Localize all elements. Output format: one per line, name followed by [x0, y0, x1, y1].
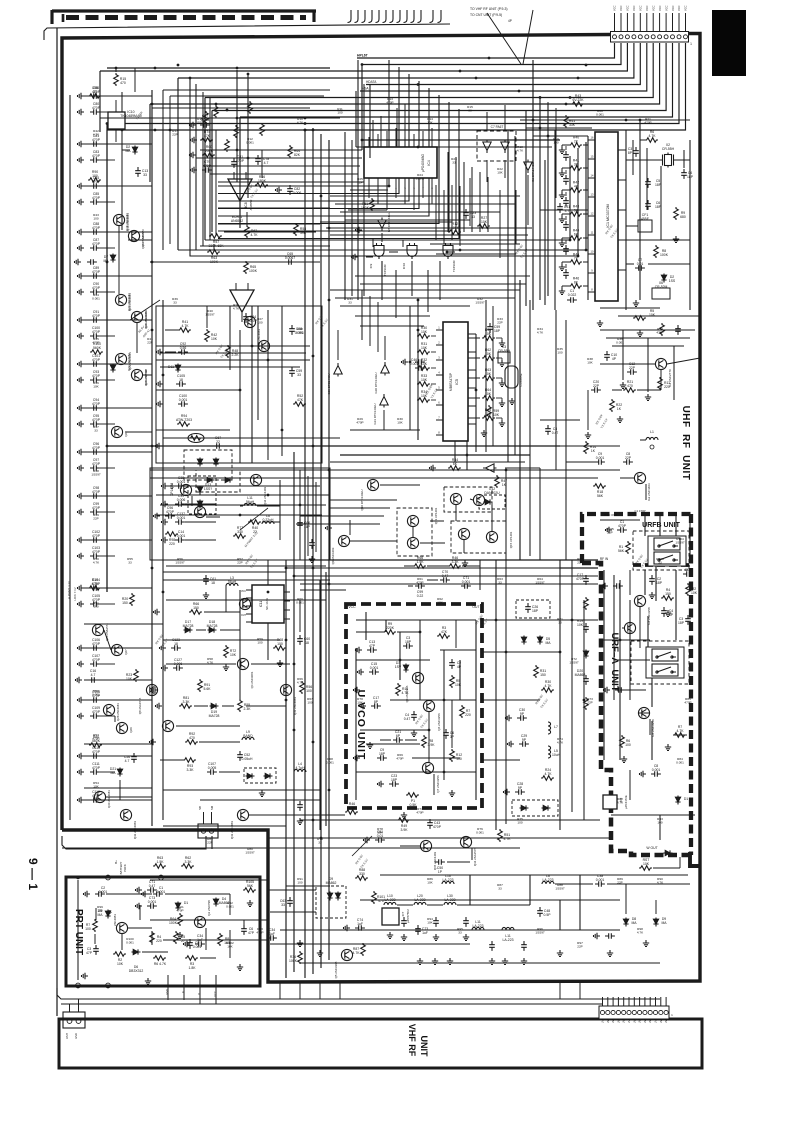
- svg-text:22P: 22P: [577, 945, 583, 949]
- svg-text:Q6 2SC3356: Q6 2SC3356: [437, 713, 441, 731]
- wire v links: [216, 485, 250, 487]
- svg-text:56K: 56K: [247, 884, 254, 888]
- resistor Rc2: [198, 679, 203, 692]
- svg-text:LNF: LNF: [607, 1018, 610, 1023]
- resistor R58: [294, 223, 299, 236]
- transistor Q21: [131, 311, 142, 322]
- diode Dm1: [537, 636, 542, 645]
- relay dashed sub-boxes: [633, 531, 689, 570]
- svg-text:150: 150: [540, 673, 546, 677]
- svg-text:0.006: 0.006: [177, 498, 186, 502]
- coil Lm2: [548, 746, 551, 758]
- capacitor Cll1: [203, 575, 209, 585]
- resistor R59: [487, 405, 492, 418]
- coil Lc2: [242, 737, 254, 740]
- svg-text:MA: MA: [661, 921, 667, 925]
- svg-text:Q34 2SA1576: Q34 2SA1576: [473, 848, 477, 867]
- svg-text:G2 2SC4403: G2 2SC4403: [647, 483, 651, 501]
- svg-text:4.7K: 4.7K: [637, 931, 644, 935]
- svg-text:VCC: VCC: [626, 5, 630, 11]
- capacitor Cm2: [517, 715, 527, 721]
- IC U11 (SC-1443): [252, 585, 284, 623]
- coil L9b (LA-223): [502, 927, 514, 930]
- transistor Q28: [103, 704, 114, 715]
- svg-text:10K: 10K: [691, 591, 698, 595]
- wire right-mid trunks: [519, 280, 521, 560]
- varistor TH1: [188, 434, 204, 443]
- svg-text:4.7K: 4.7K: [617, 801, 624, 805]
- svg-text:22P: 22P: [147, 341, 153, 345]
- capacitor Cp4: [187, 939, 193, 949]
- svg-text:56K: 56K: [618, 549, 625, 553]
- svg-text:DAN202U: DAN202U: [484, 491, 500, 495]
- svg-text:220: 220: [664, 385, 670, 389]
- resistor R51: [370, 198, 375, 211]
- svg-text:0.001: 0.001: [92, 297, 100, 301]
- resistor R21: [623, 388, 636, 393]
- svg-text:Q22 2SC4081: Q22 2SC4081: [127, 353, 131, 371]
- svg-text:VCC: VCC: [645, 5, 649, 11]
- diode Db1: [623, 918, 628, 927]
- bus wires from connector J1: [357, 43, 615, 58]
- svg-text:SM: SM: [210, 805, 214, 810]
- svg-text:470P: 470P: [166, 510, 175, 514]
- svg-text:100: 100: [97, 909, 102, 913]
- resistor Ru1: [686, 583, 691, 596]
- svg-text:10K: 10K: [427, 881, 433, 885]
- transistor Q18: [113, 214, 124, 225]
- wire left links: [118, 226, 120, 294]
- wire left inner vertical: [69, 95, 71, 820]
- diode D2: [661, 274, 666, 283]
- svg-text:33: 33: [318, 841, 322, 845]
- svg-text:1uF: 1uF: [269, 932, 275, 936]
- ground b1: [387, 932, 393, 939]
- svg-text:22P: 22P: [625, 456, 632, 460]
- resistor R90: [88, 178, 101, 183]
- cap Cb9: [605, 933, 615, 939]
- resistor ladder at U5: [417, 334, 430, 339]
- svg-text:D1: D1: [184, 901, 188, 905]
- dashed module mid2: [512, 800, 558, 816]
- svg-text:4K: 4K: [574, 185, 579, 189]
- svg-text:33: 33: [348, 301, 352, 305]
- relay S2 contacts: [652, 649, 678, 661]
- svg-text:0.022: 0.022: [568, 293, 577, 297]
- dashed diode module G12: [479, 495, 505, 509]
- cap C38: [595, 881, 605, 887]
- svg-text:47K: 47K: [297, 398, 304, 402]
- svg-text:R6 4.7K: R6 4.7K: [154, 962, 167, 966]
- svg-text:47P: 47P: [369, 644, 376, 648]
- svg-text:3.9K: 3.9K: [401, 828, 409, 832]
- svg-text:1SS: 1SS: [669, 279, 676, 283]
- resistor Ru3: [673, 733, 686, 738]
- wire urfb h: [600, 519, 640, 521]
- svg-text:PACK: PACK: [123, 864, 127, 872]
- svg-text:150: 150: [193, 606, 199, 610]
- svg-text:OUT: OUT: [472, 605, 479, 609]
- wire entry hooks (top center): [348, 10, 352, 23]
- svg-text:100: 100: [625, 743, 631, 747]
- resistor Rv7: [450, 675, 455, 688]
- wire U1 col: [554, 130, 556, 310]
- svg-text:22P: 22P: [172, 133, 178, 137]
- resistor Rv3: [422, 735, 427, 748]
- svg-text:VCC: VCC: [677, 5, 681, 11]
- transistor Qc2 (2SC4081): [162, 720, 173, 731]
- logic gate U9c: [443, 243, 453, 259]
- svg-text:TC4S66F: TC4S66F: [452, 260, 456, 272]
- svg-text:100: 100: [297, 881, 302, 885]
- wire mid horizontals: [286, 567, 560, 569]
- resistor R62: [245, 225, 250, 238]
- diode D7: [110, 254, 115, 263]
- capacitor Cu1: [613, 583, 623, 589]
- svg-text:RF IN: RF IN: [600, 557, 609, 561]
- svg-text:µPC4176E: µPC4176E: [624, 795, 628, 809]
- svg-text:470P: 470P: [176, 909, 183, 913]
- svg-text:Q30 2SC4081: Q30 2SC4081: [107, 790, 111, 808]
- svg-text:1uF: 1uF: [422, 931, 428, 935]
- svg-text:Q15 XP1401: Q15 XP1401: [509, 531, 513, 548]
- svg-text:455E: 455E: [641, 217, 650, 221]
- svg-text:33: 33: [468, 109, 472, 113]
- capacitor C3 0.47: [545, 425, 551, 435]
- svg-text:100: 100: [277, 642, 283, 646]
- resistor Rs1: [226, 345, 231, 358]
- capacitor Cr1: [633, 147, 639, 157]
- wire tri links: [337, 330, 339, 360]
- svg-text:33: 33: [93, 90, 97, 94]
- svg-text:680: 680: [680, 215, 686, 219]
- svg-text:100K: 100K: [289, 959, 298, 963]
- wire run y174: [210, 173, 358, 175]
- svg-text:4.7K: 4.7K: [504, 837, 512, 841]
- wire left top: [115, 68, 117, 72]
- svg-text:IC10: IC10: [402, 263, 406, 270]
- svg-text:56K: 56K: [597, 494, 604, 498]
- transistor Qs1 (2SC4081): [244, 316, 255, 327]
- capacitor Cb8: [537, 907, 543, 917]
- svg-text:100: 100: [517, 821, 522, 825]
- wire right col horizontals: [520, 119, 595, 121]
- resistor R15: [114, 73, 119, 86]
- diode D11: [175, 364, 180, 373]
- svg-text:Q5 2SC3398: Q5 2SC3398: [334, 961, 338, 978]
- cap C58 at U5: [415, 359, 425, 365]
- coil Lll2: [262, 521, 274, 524]
- svg-text:3.3K: 3.3K: [183, 700, 191, 704]
- svg-text:22P: 22P: [577, 561, 583, 565]
- svg-text:330: 330: [359, 872, 365, 876]
- svg-text:470P: 470P: [396, 757, 403, 761]
- VHF RF unit enclosure (thick): [59, 1019, 702, 1068]
- wire trunk x237: [236, 70, 238, 182]
- svg-text:0.001: 0.001: [326, 761, 334, 765]
- svg-text:220: 220: [156, 939, 162, 943]
- svg-text:470P: 470P: [92, 418, 101, 422]
- svg-text:100: 100: [93, 217, 98, 221]
- capacitor column at U1: [563, 151, 569, 161]
- wire uhf corner: [600, 329, 695, 331]
- annotation leader lines: [487, 13, 521, 64]
- resistor R65: [244, 261, 249, 274]
- ground urfa: [649, 592, 655, 599]
- svg-text:L1: L1: [650, 430, 654, 434]
- resistor Rb1: [355, 876, 368, 881]
- buffer G31: [380, 394, 388, 408]
- dashed module C7 PA6T: [477, 131, 516, 161]
- svg-text:0.001: 0.001: [99, 890, 108, 894]
- svg-text:2.2K: 2.2K: [232, 353, 240, 357]
- dashed pair box A: [444, 487, 492, 512]
- svg-text:22P: 22P: [617, 881, 623, 885]
- svg-text:G5 2SC3358: G5 2SC3358: [651, 719, 655, 737]
- svg-text:0.001: 0.001: [193, 945, 202, 949]
- svg-text:470P: 470P: [416, 811, 423, 815]
- svg-text:VCC: VCC: [348, 605, 356, 609]
- svg-text:10K: 10K: [481, 220, 488, 224]
- svg-text:0.001: 0.001: [370, 666, 379, 670]
- svg-text:100: 100: [307, 701, 312, 705]
- svg-text:470: 470: [189, 736, 195, 740]
- transistor Qp2 (2SD798): [194, 916, 205, 927]
- svg-text:470P: 470P: [92, 106, 101, 110]
- op-amp U8a (IC8 AN6552): [228, 179, 252, 201]
- svg-text:1SS97: 1SS97: [569, 661, 579, 665]
- svg-text:VCC: VCC: [658, 5, 662, 11]
- border corner step (URF-A to frame): [690, 852, 700, 866]
- transistor Q17: [128, 230, 139, 241]
- capacitor Cv1: [367, 647, 377, 653]
- svg-text:IC8: IC8: [244, 202, 248, 207]
- svg-text:IC9: IC9: [369, 263, 373, 268]
- transistor Q13: [450, 493, 461, 504]
- diode Dp1: [105, 910, 110, 919]
- svg-text:CR-55H: CR-55H: [662, 147, 675, 151]
- capacitor C99: [415, 583, 425, 589]
- svg-text:LNF: LNF: [660, 1018, 663, 1023]
- svg-text:D1: D1: [684, 797, 688, 801]
- svg-text:470P: 470P: [92, 766, 101, 770]
- ground bx: [247, 900, 253, 907]
- resistor Rb7: [639, 866, 652, 871]
- svg-text:10K: 10K: [421, 330, 428, 334]
- svg-text:VCC: VCC: [671, 5, 675, 11]
- buffer G3 (DTA144EU): [524, 160, 532, 174]
- svg-text:470P: 470P: [92, 138, 101, 142]
- resistor Rv6: [437, 634, 450, 639]
- svg-text:470P: 470P: [618, 524, 627, 528]
- diode Dc3 (MA728): [210, 703, 219, 708]
- svg-text:10K: 10K: [577, 623, 584, 627]
- wire bundle u2: [447, 152, 449, 232]
- resistor R100: [90, 350, 103, 355]
- wire drops from main to rail: [279, 982, 281, 999]
- capacitor Cb6: [489, 941, 495, 951]
- svg-text:LNF: LNF: [665, 1018, 668, 1023]
- svg-text:G29 DTC144EU: G29 DTC144EU: [327, 373, 331, 394]
- capacitor Cb3: [267, 935, 277, 941]
- connector P2 (2-pin, on notch border): [198, 824, 218, 838]
- svg-text:9P: 9P: [522, 738, 527, 742]
- wire x358 x364: [357, 60, 359, 300]
- resistor Re2: [397, 818, 410, 823]
- svg-text:CR-52M: CR-52M: [655, 285, 668, 289]
- wire gates: [372, 238, 374, 247]
- svg-text:47K: 47K: [441, 630, 448, 634]
- svg-text:3P: 3P: [450, 735, 455, 739]
- svg-text:56uH: 56uH: [228, 580, 237, 584]
- svg-text:1: 1: [690, 42, 692, 46]
- resistor Rc4: [238, 699, 243, 712]
- capacitor Cp5 prt: [241, 925, 247, 935]
- svg-text:10K: 10K: [493, 413, 500, 417]
- wire right col verticals: [532, 60, 534, 310]
- svg-text:Q18 2SC4081: Q18 2SC4081: [125, 213, 129, 231]
- transistor Q10 (DTC144EU): [367, 479, 378, 490]
- resistor Rc5: [185, 740, 198, 745]
- svg-text:22P: 22P: [237, 561, 243, 565]
- svg-text:470P: 470P: [92, 490, 101, 494]
- coil L1b: [646, 437, 658, 440]
- capacitor Cv9: [443, 729, 449, 739]
- svg-text:4.7K: 4.7K: [545, 772, 553, 776]
- svg-text:LNF: LNF: [633, 1018, 636, 1023]
- svg-text:1SS?: 1SS?: [204, 487, 212, 491]
- svg-text:UNIT: UNIT: [419, 1036, 429, 1057]
- capacitor Cbx2: [195, 941, 205, 947]
- svg-text:OUT: OUT: [241, 614, 247, 617]
- resistor Rb3: [361, 943, 366, 956]
- wire bottom horizontals: [62, 847, 520, 849]
- capacitor Cc4: [237, 751, 243, 761]
- svg-text:10K: 10K: [126, 677, 133, 681]
- svg-text:LNF: LNF: [623, 1018, 626, 1023]
- wire run y158: [196, 157, 362, 159]
- svg-text:22P: 22P: [587, 701, 593, 705]
- svg-text:VCC: VCC: [613, 5, 617, 11]
- resistor R63: [207, 250, 220, 255]
- wire vco web: [356, 619, 476, 621]
- transistor Qv1 (2SC3356): [423, 700, 434, 711]
- resistor R66: [255, 183, 268, 188]
- coil L11 (LA-223): [472, 927, 484, 930]
- resistor Rm2: [541, 688, 554, 693]
- transistor Q16: [486, 531, 497, 542]
- svg-text:6V-22K: 6V-22K: [572, 98, 584, 102]
- svg-text:UHF RF UNIT: UHF RF UNIT: [680, 406, 691, 481]
- top-left dashed connector strip: [52, 9, 316, 12]
- logic gate U9b: [407, 243, 417, 259]
- svg-text:330: 330: [237, 530, 243, 534]
- svg-text:10K: 10K: [117, 962, 124, 966]
- transistor Qv3 (2SC3356): [412, 672, 423, 683]
- resistor R66b: [413, 564, 426, 569]
- junction dots vco: [399, 659, 402, 662]
- svg-text:470P: 470P: [92, 358, 101, 362]
- svg-text:VIG: VIG: [242, 606, 246, 609]
- coil Lc1: [226, 583, 238, 586]
- svg-text:CR-55H: CR-55H: [498, 349, 511, 353]
- svg-text:1.8K: 1.8K: [189, 966, 197, 970]
- svg-text:18: 18: [211, 581, 215, 585]
- capacitor C1 left: [88, 677, 98, 683]
- capacitor Cc1: [171, 645, 181, 651]
- resistor Ruh1: [658, 377, 663, 390]
- buffer G1: [483, 140, 491, 154]
- resistor R18: [593, 484, 606, 489]
- capacitor Cv6: [449, 659, 455, 669]
- crystal X2 (CR-55H): [663, 153, 674, 168]
- left rail decoupling stages (capacitors to ground): [78, 93, 85, 99]
- svg-text:8P: 8P: [628, 151, 633, 155]
- svg-text:4.7: 4.7: [91, 673, 96, 677]
- svg-text:4.7: 4.7: [125, 759, 130, 763]
- connector P3 (2-pin, VHF left): [63, 1012, 85, 1028]
- svg-text:470P: 470P: [92, 737, 99, 741]
- wire icr horizontals: [626, 239, 690, 241]
- transistor Qb1 (2SC3398): [341, 949, 352, 960]
- wire loop C: [205, 239, 570, 241]
- resistor Rm4: [498, 829, 503, 842]
- svg-text:470P: 470P: [92, 154, 101, 158]
- svg-text:1SS97: 1SS97: [245, 851, 255, 855]
- capacitor C78: [255, 155, 261, 165]
- svg-text:1SS97: 1SS97: [535, 931, 545, 935]
- transistor Qlc1 (2SC4081): [120, 809, 131, 820]
- diode D8: [110, 364, 115, 373]
- diode Dp4: [213, 898, 218, 907]
- buffer G29 (DTC144EU): [334, 363, 342, 377]
- resistor R64: [288, 145, 293, 158]
- capacitor C71: [461, 583, 471, 589]
- svg-text:4.7: 4.7: [565, 209, 570, 213]
- connector P4 (13-pin, VHF top): [599, 1006, 669, 1019]
- svg-text:56uH: 56uH: [246, 500, 255, 504]
- svg-text:100: 100: [306, 689, 312, 693]
- resistor Rm3: [541, 776, 554, 781]
- resistor R80: [89, 743, 102, 748]
- dashed module Dll: [196, 470, 240, 492]
- svg-text:LNF: LNF: [628, 1018, 631, 1023]
- svg-text:8K: 8K: [574, 281, 579, 285]
- svg-text:HSA: HSA: [362, 87, 369, 91]
- svg-text:1K: 1K: [591, 449, 596, 453]
- wire uhf cluster: [600, 363, 655, 365]
- svg-text:0.01: 0.01: [637, 262, 644, 266]
- svg-text:33: 33: [452, 161, 456, 165]
- capacitor Ctl2: [135, 167, 141, 177]
- capacitor C1 at U1 pin: [567, 297, 577, 303]
- svg-text:256K: 256K: [205, 149, 214, 153]
- svg-text:GND: GND: [74, 1033, 78, 1039]
- coil Lll1: [294, 769, 306, 772]
- resistor R41: [178, 328, 191, 333]
- wire highway: [107, 445, 560, 447]
- transistor Q27: [111, 644, 122, 655]
- capacitor Cb2: [415, 925, 421, 935]
- svg-text:1SS97: 1SS97: [555, 887, 565, 891]
- resistor Rll3: [233, 534, 246, 539]
- svg-text:470P: 470P: [92, 462, 101, 466]
- resistor Rp7 prt: [218, 933, 223, 946]
- svg-text:100: 100: [337, 111, 342, 115]
- capacitor Cd1: [297, 635, 303, 645]
- wire web t1: [218, 207, 330, 209]
- wire vco extra: [355, 648, 357, 800]
